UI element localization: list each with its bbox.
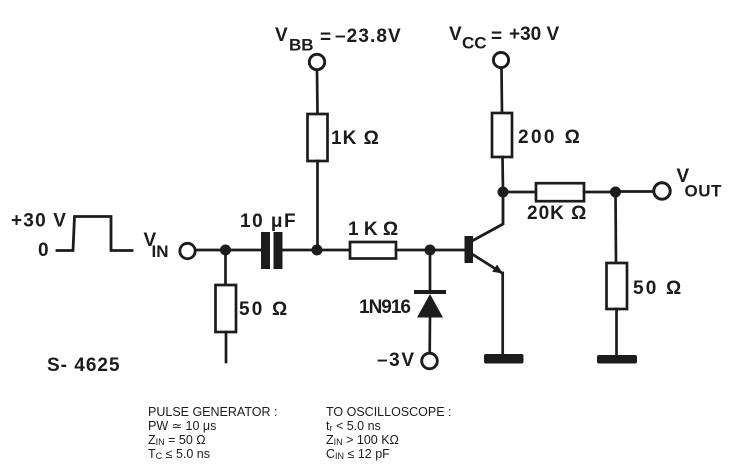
terminal VIN: [180, 243, 195, 258]
wire R4 to base: [396, 249, 465, 252]
node base junction dot: [425, 245, 436, 256]
svg-text:CC: CC: [462, 34, 487, 53]
resistor R3 50 ohm vertical: [216, 285, 237, 332]
diode D1 triangle: [417, 294, 443, 318]
svg-text:ZIN = 50 Ω: ZIN = 50 Ω: [148, 433, 206, 447]
transistor Q1 base bar: [465, 236, 474, 263]
transistor Q1 emitter: [472, 254, 502, 273]
wire R6 to output node: [584, 191, 616, 194]
terminal VBB: [309, 54, 324, 69]
resistor R5 50 ohm vertical: [607, 263, 628, 309]
wire VIN to capacitor: [197, 249, 262, 252]
svg-text:PULSE GENERATOR :: PULSE GENERATOR :: [148, 405, 277, 419]
wire emitter to ground: [501, 273, 504, 354]
wire capacitor to R4: [283, 249, 351, 252]
svg-text:200 Ω: 200 Ω: [518, 127, 582, 148]
note pulse generator block: [148, 405, 277, 461]
wire output node to VOUT terminal: [616, 190, 653, 193]
label VOUT: [677, 166, 723, 201]
svg-text:50 Ω: 50 Ω: [239, 299, 289, 320]
svg-text:–3V: –3V: [377, 350, 416, 371]
svg-text:=: =: [491, 26, 502, 47]
svg-text:IN: IN: [152, 242, 169, 261]
resistor R1 1K ohm vertical: [308, 114, 328, 161]
wire R3 bottom stub: [225, 332, 228, 362]
svg-text:20K Ω: 20K Ω: [527, 203, 587, 224]
svg-text:1 K Ω: 1 K Ω: [348, 219, 398, 240]
terminal VCC: [493, 52, 508, 67]
svg-text:CIN ≤ 12 pF: CIN ≤ 12 pF: [326, 447, 390, 461]
wire output node down to R5: [614, 192, 617, 263]
wire VBB to R1: [316, 71, 319, 115]
wire base node down to diode: [429, 250, 432, 291]
resistor R4 1K ohm horizontal: [350, 242, 396, 259]
node input junction dot: [220, 245, 231, 256]
wire R2 to collector node: [501, 157, 504, 192]
node VBB junction dot: [312, 245, 323, 256]
svg-text:1N916: 1N916: [359, 297, 410, 318]
svg-text:tr < 5.0 ns: tr < 5.0 ns: [326, 419, 381, 433]
svg-text:+30 V: +30 V: [509, 24, 560, 45]
svg-text:+30 V: +30 V: [11, 211, 67, 232]
svg-text:BB: BB: [289, 36, 314, 55]
resistor R6 20K ohm horizontal: [536, 183, 584, 201]
node collector junction dot: [498, 187, 509, 198]
svg-text:1K Ω: 1K Ω: [331, 128, 380, 149]
svg-text:50 Ω: 50 Ω: [633, 278, 683, 299]
ground emitter: [484, 354, 524, 364]
wire diode to -3V terminal: [428, 317, 431, 352]
svg-text:–23.8V: –23.8V: [335, 26, 402, 47]
wire VCC to R2: [500, 69, 503, 114]
transistor Q1 collector: [472, 192, 503, 241]
svg-text:0: 0: [38, 240, 49, 261]
wire R5 to ground: [615, 309, 618, 355]
svg-text:10 μF: 10 μF: [240, 211, 297, 232]
node output junction dot: [610, 187, 621, 198]
label VBB = -23.8V: [275, 25, 402, 55]
svg-text:PW ≃ 10 μs: PW ≃ 10 μs: [148, 419, 216, 433]
terminal -3V: [422, 353, 438, 369]
transistor Q1 emitter arrow: [492, 265, 503, 274]
capacitor C1 plates: [261, 232, 270, 269]
pulse waveform: [57, 217, 132, 251]
resistor R2 200 ohm vertical: [492, 113, 512, 157]
note oscilloscope block: [326, 405, 452, 461]
svg-text:TC ≤ 5.0 ns: TC ≤ 5.0 ns: [148, 447, 210, 461]
svg-text:V: V: [449, 24, 462, 45]
svg-text:ZIN > 100 KΩ: ZIN > 100 KΩ: [326, 433, 399, 447]
label VCC = +30V: [449, 24, 560, 53]
svg-text:OUT: OUT: [685, 182, 723, 201]
svg-text:TO OSCILLOSCOPE :: TO OSCILLOSCOPE :: [326, 405, 452, 419]
diode D1 1N916 cathode bar: [416, 290, 444, 294]
wire R1 to input node: [316, 161, 319, 250]
svg-text:S- 4625: S- 4625: [47, 355, 121, 376]
terminal VOUT: [654, 183, 670, 199]
wire input node down to R3: [224, 250, 227, 285]
svg-text:=: =: [320, 27, 331, 48]
label VIN: [144, 230, 169, 261]
ground output: [597, 355, 637, 364]
svg-text:V: V: [275, 25, 288, 46]
wire collector node to R6: [503, 191, 536, 194]
